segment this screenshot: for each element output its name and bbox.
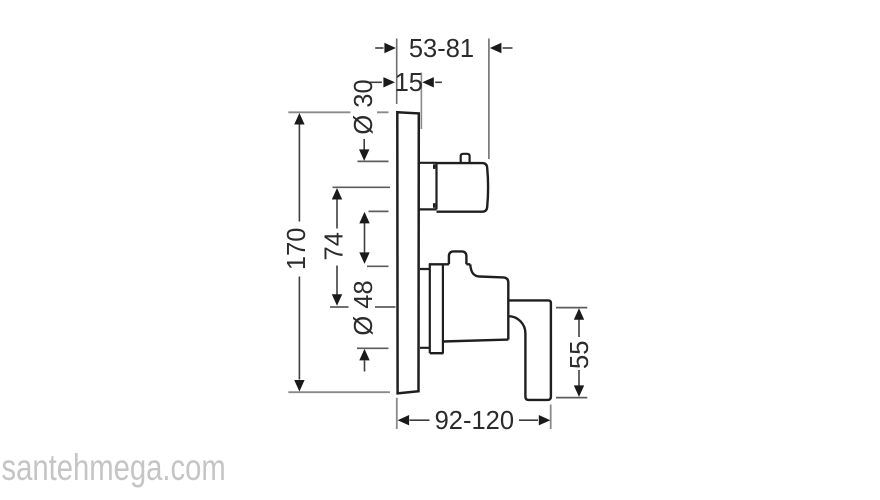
dim 74 line with arrows: [332, 188, 342, 306]
dim Ø30 top arrow: [359, 139, 369, 161]
valve body top edge: [429, 263, 470, 265]
dim 15 arrow right: [422, 77, 442, 87]
wall plate: [397, 112, 419, 393]
svg-text:santehmega.com: santehmega.com: [2, 448, 226, 489]
dim 170 ext line top: [288, 111, 388, 113]
handle lever: [508, 300, 551, 400]
top knob back edge: [435, 163, 437, 210]
dim 92-120 ext line right: [550, 405, 552, 430]
svg-text:15: 15: [395, 69, 423, 97]
svg-text:92-120: 92-120: [435, 407, 514, 435]
dim 53-81 ext line right: [488, 39, 490, 160]
dim 53-81 ext line left: [396, 39, 398, 105]
dim 15 ext line right: [420, 73, 422, 130]
svg-text:55: 55: [566, 341, 594, 369]
dim Ø30 / Ø48 double arrow shaft: [359, 212, 369, 264]
svg-text:53-81: 53-81: [409, 35, 474, 63]
dim 170 ext line bottom: [288, 391, 390, 393]
dim 92-120 ext line left: [396, 398, 398, 429]
top knob sleeve: [419, 163, 437, 210]
dim 55 ext line top: [556, 307, 587, 309]
dim Ø30 ext line top: [358, 160, 389, 162]
dim Ø48 bottom arrow: [359, 349, 369, 372]
svg-text:74: 74: [320, 232, 348, 260]
svg-text:170: 170: [283, 228, 311, 271]
dim Ø48 ext line top: [367, 265, 389, 267]
dim Ø30 ext line bottom: [369, 210, 389, 212]
top knob nub: [461, 154, 470, 163]
dim 53-81 arrow right: [490, 43, 513, 53]
svg-text:Ø 30: Ø 30: [350, 79, 378, 134]
lower valve sleeve: [420, 269, 430, 348]
valve body bottom edge: [443, 340, 508, 342]
top knob body (thermostat handle): [437, 163, 489, 212]
dim 53-81 arrow left: [375, 43, 396, 53]
dim 55 line with arrows: [574, 308, 584, 397]
lower escutcheon ring right edge: [442, 264, 444, 353]
dim Ø48 ext line bottom: [357, 347, 389, 349]
dim 55 ext line bottom: [556, 397, 587, 399]
top knob flange tick upper: [433, 164, 435, 169]
valve body dome tab: [449, 251, 466, 264]
dim 92-120 line with arrows: [398, 415, 551, 425]
top knob flange tick lower: [433, 203, 435, 208]
svg-text:Ø 48: Ø 48: [350, 280, 378, 335]
dim 170 line with arrows: [294, 113, 304, 392]
dim 74 ext line bottom: [330, 306, 396, 308]
dim 74 ext line top: [333, 186, 391, 188]
valve body step and right side: [470, 264, 508, 339]
dim 15 arrow left: [366, 77, 395, 87]
lower escutcheon ring left edge: [429, 264, 431, 353]
lower escutcheon ring bottom: [430, 352, 444, 354]
